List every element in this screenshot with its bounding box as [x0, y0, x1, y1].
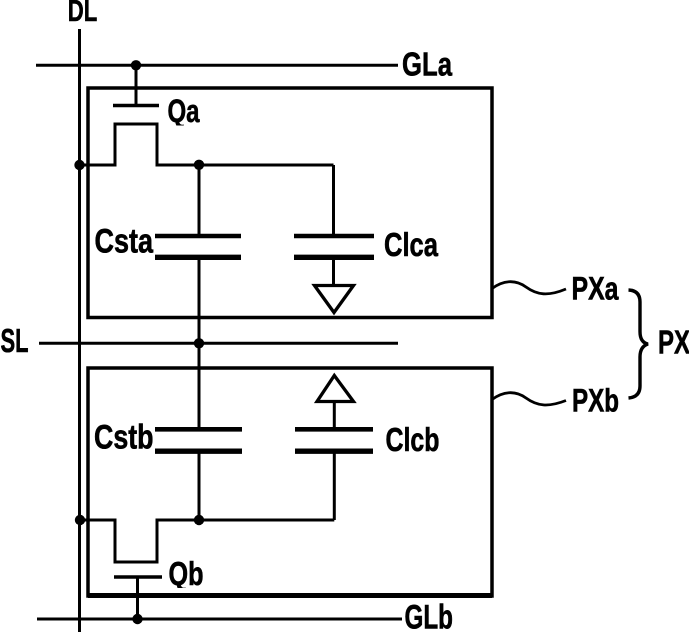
node B junction dot (Qb drain / Cstb) [194, 515, 204, 525]
wire SL to Cstb [198, 343, 201, 429]
data line DL (vertical wire) [78, 29, 81, 632]
svg-text:PX: PX [658, 324, 689, 361]
capacitor Cstb plates [155, 427, 242, 432]
capacitor Clca plates [294, 234, 374, 239]
capacitor Csta top lead wire [198, 165, 201, 236]
transistor Qa gate bar [113, 104, 159, 108]
svg-text:PXa: PXa [572, 271, 619, 307]
junction dot DL / Qa source [74, 160, 84, 170]
transistor Qa channel wire (DL to node A) [80, 124, 334, 165]
transistor Qb gate bar [114, 575, 162, 579]
pixel box PXb [88, 368, 492, 596]
svg-text:Qa: Qa [168, 93, 200, 129]
capacitor Clca bottom lead wire [332, 257, 335, 285]
svg-text:GLb: GLb [405, 599, 454, 632]
common electrode symbol (up triangle) [317, 376, 354, 402]
svg-text:PXb: PXb [572, 383, 619, 419]
storage line SL (horizontal wire) [39, 342, 398, 345]
brace grouping PXa and PXb [629, 290, 649, 398]
node A junction dot (Qa drain / Csta) [194, 160, 204, 170]
gate line GLb (horizontal wire) [37, 618, 402, 621]
capacitor Clcb bottom lead wire [333, 451, 336, 520]
pixel box PXa [88, 88, 492, 318]
svg-text:SL: SL [1, 322, 29, 359]
capacitor Clcb top lead wire [333, 402, 336, 430]
svg-text:GLa: GLa [402, 45, 452, 82]
svg-text:Clca: Clca [384, 226, 438, 263]
svg-text:Clcb: Clcb [386, 421, 440, 458]
capacitor Cstb bottom lead wire [198, 451, 201, 520]
junction dot GLa / Qa gate [131, 60, 141, 70]
svg-text:DL: DL [68, 0, 98, 28]
svg-text:Cstb: Cstb [94, 419, 154, 457]
node SL junction dot [194, 338, 204, 348]
transistor Qa gate lead wire [135, 65, 138, 105]
squiggle connector to PXa [492, 282, 566, 294]
capacitor Clca top lead wire [332, 165, 335, 236]
transistor Qb gate lead wire [136, 577, 139, 619]
junction dot GLb / Qb gate [132, 614, 142, 624]
capacitor Clcb plates [295, 427, 373, 432]
capacitor Csta bottom lead wire to SL [198, 257, 201, 343]
capacitor Csta plates [155, 234, 241, 239]
common electrode symbol (down triangle) [315, 286, 354, 313]
squiggle connector to PXb [492, 393, 566, 405]
svg-text:Qb: Qb [169, 555, 204, 592]
gate line GLa (horizontal wire) [36, 64, 398, 67]
svg-text:Csta: Csta [95, 223, 154, 261]
transistor Qb channel wire (DL to node B) [80, 520, 334, 562]
junction dot DL / Qb source [75, 515, 85, 525]
